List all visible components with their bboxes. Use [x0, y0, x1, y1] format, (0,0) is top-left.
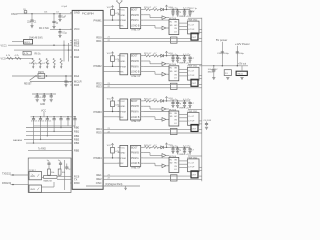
logic block U10 — [131, 8, 144, 29]
out4 pin numbers — [108, 174, 111, 179]
resistor bank RN1 a — [32, 58, 34, 65]
svg-text:POWER +12V: POWER +12V — [178, 154, 192, 156]
U1 left pin names — [74, 11, 82, 185]
svg-text:HO: HO — [174, 25, 177, 27]
wire TXD232 — [11, 174, 30, 175]
resistor R6 value — [35, 53, 42, 55]
U30 caption — [132, 120, 141, 123]
row2 rail caption — [178, 62, 192, 64]
optocoupler U3 — [29, 185, 42, 192]
ground caps 2 — [171, 60, 191, 62]
svg-text:PWM4: PWM4 — [94, 156, 103, 160]
row4 rail caption — [178, 154, 192, 156]
svg-text:VCC: VCC — [120, 56, 125, 58]
wire d3 vcc — [163, 100, 173, 101]
connector J4 servo header — [118, 145, 128, 166]
svg-text:VCC: VCC — [120, 147, 125, 149]
wire pwmB 3 — [143, 106, 162, 109]
wire out3 a — [103, 129, 191, 131]
capacitor C2 1u — [52, 14, 58, 26]
wire U11 Q1 a — [179, 22, 188, 24]
wire buf2a out — [166, 63, 169, 65]
half bridge Q2 — [188, 67, 200, 80]
svg-text:MCLR: MCLR — [74, 80, 82, 84]
svg-text:4.7: 4.7 — [191, 58, 194, 60]
svg-text:+5V out: +5V out — [238, 62, 246, 65]
buffer B1b — [162, 26, 166, 30]
wire caps feed 4 — [172, 147, 190, 148]
wire out4 a — [103, 175, 191, 177]
svg-text:100µ: 100µ — [239, 53, 245, 55]
svg-text:V+ 4.7: V+ 4.7 — [188, 25, 195, 27]
capacitor C35 1uF — [204, 120, 212, 129]
svg-text:VCC 1µ: VCC 1µ — [190, 8, 198, 10]
resistor R11 — [144, 7, 152, 11]
svg-text:0.1 0.1 0.1: 0.1 0.1 0.1 — [35, 97, 46, 99]
ground under C5 — [64, 85, 67, 87]
wire loadB 4 — [143, 163, 162, 166]
svg-text:LOAD B: LOAD B — [131, 162, 140, 165]
regulator U20 78L05 — [236, 66, 247, 76]
wire boot 2 — [143, 55, 144, 57]
diode D41 — [161, 146, 164, 149]
svg-text:GND: GND — [40, 104, 45, 106]
cap values b 3 — [179, 99, 194, 105]
wire vcc drop — [43, 112, 45, 117]
capacitor C14 — [188, 10, 191, 14]
wire RX3 net — [103, 116, 120, 118]
resistor bank RN1 e — [60, 58, 62, 65]
svg-text:RESET: RESET — [24, 83, 32, 85]
power flag VCC row 3 — [165, 97, 173, 101]
U1 right pin names — [94, 18, 103, 185]
sense resistor R4S — [171, 175, 178, 181]
resistor R11 — [58, 169, 66, 175]
wire serial rail — [64, 160, 66, 190]
node +12V power — [235, 42, 250, 46]
diode D20 label — [208, 71, 216, 73]
wire r21 r22 — [151, 55, 153, 57]
wire decoupling lower bus — [34, 125, 76, 127]
net label VCC1 — [1, 45, 8, 47]
serial enclosure — [28, 158, 71, 193]
svg-text:PWM: PWM — [120, 66, 126, 68]
wire Q1 rail a — [199, 29, 202, 31]
svg-text:LOAD B: LOAD B — [131, 71, 140, 74]
wire buf4a out — [166, 154, 169, 156]
svg-text:VCC1: VCC1 — [1, 45, 8, 47]
buffer B4a — [162, 154, 166, 158]
svg-text:RA5: RA5 — [74, 83, 80, 87]
capacitor C15 — [66, 117, 69, 126]
capacitor C14 — [59, 117, 62, 126]
wire caps feed 1 — [172, 9, 190, 10]
wire U41 Q4 c — [179, 167, 188, 169]
power flag VCC mid — [41, 109, 46, 112]
wire port drop 1 — [33, 126, 34, 144]
svg-text:HO: HO — [174, 116, 177, 118]
capacitor C11 — [39, 117, 42, 126]
level shifter U4 — [44, 176, 58, 179]
resistor R26 4.7k — [111, 56, 120, 62]
cap values a 2 — [171, 54, 179, 56]
wire RXD232 — [11, 184, 30, 185]
resistor R31 — [144, 98, 152, 102]
power flag VCC pullup 2 — [107, 52, 114, 56]
capacitor C20 — [217, 50, 230, 55]
wire pwmA 3 — [143, 111, 169, 113]
wire Q4 rail a — [199, 166, 202, 168]
diode D1 label — [29, 37, 43, 39]
wire pwmA 4 — [143, 157, 169, 159]
cap values a 4 — [171, 145, 179, 147]
svg-text:ETAL UP: ETAL UP — [132, 120, 141, 123]
resistor bank RN1 d — [53, 58, 55, 65]
U1 part number — [82, 12, 94, 16]
wire loadB 2 — [143, 72, 162, 75]
wire RX2 net — [103, 71, 120, 73]
svg-text:PWM A: PWM A — [131, 157, 139, 160]
ground under C22 — [212, 78, 215, 80]
wire out1 a — [103, 37, 191, 39]
svg-text:4.7 UF: 4.7 UF — [188, 29, 195, 31]
wire Q2 rail a — [199, 75, 202, 77]
microcontroller U1 PIC16F877 — [72, 10, 103, 189]
sense resistor R1S — [171, 37, 178, 43]
svg-text:R2 4.7kΩ: R2 4.7kΩ — [39, 28, 49, 30]
svg-text:0.1 4.7µ: 0.1 4.7µ — [183, 99, 191, 101]
svg-text:LO: LO — [174, 31, 177, 33]
capacitor C44 — [188, 147, 191, 151]
svg-text:VCC: VCC — [120, 10, 125, 12]
power flag VCC pullup 4 — [107, 143, 114, 147]
svg-text:R11 4.7: R11 4.7 — [144, 7, 152, 9]
wire pwmA 2 — [143, 65, 169, 67]
wire cap trio bus — [32, 93, 56, 94]
optocoupler U2 label — [29, 170, 36, 172]
wire PWM2 net — [103, 61, 120, 67]
svg-text:HO: HO — [174, 163, 177, 165]
svg-text:PWM: PWM — [120, 158, 126, 160]
wire out2 a — [103, 84, 191, 86]
svg-text:RB2: RB2 — [74, 134, 80, 138]
diode D11 — [161, 8, 164, 11]
resistor R12 — [153, 7, 159, 11]
rectifier BR1 — [224, 70, 231, 76]
connector J2 servo header — [118, 54, 128, 75]
antenna ANT1 — [116, 1, 122, 8]
wire r22 d2 — [159, 55, 161, 57]
wire U11 Q1 b — [179, 25, 188, 27]
wire caps feed 3 — [172, 100, 190, 101]
node +5V out — [238, 62, 246, 65]
gate driver U31 — [169, 111, 179, 126]
net label top-left — [11, 13, 18, 16]
svg-text:100µF 25V: 100µF 25V — [208, 69, 218, 71]
sense resistor R2S — [171, 83, 178, 89]
svg-text:VCC: VCC — [120, 101, 125, 103]
svg-text:RD1: RD1 — [96, 39, 102, 43]
svg-text:78L05: 78L05 — [237, 74, 244, 76]
wire Q3 rail a — [199, 120, 202, 122]
net label To RXD — [38, 148, 46, 150]
supervisor U6 — [12, 40, 33, 45]
wire r32 d3 — [159, 100, 161, 102]
capacitor C43 — [183, 147, 186, 151]
note copyright — [105, 183, 123, 186]
switch SW1 — [30, 76, 36, 80]
capacitor C33 — [183, 101, 186, 105]
svg-text:V+ 4.7: V+ 4.7 — [188, 162, 195, 164]
U20 caption — [132, 75, 141, 78]
svg-text:RA4: RA4 — [74, 74, 80, 78]
U10 caption — [132, 29, 141, 32]
wire opto out b — [42, 182, 55, 187]
svg-text:VCC: VCC — [1, 57, 6, 60]
wire U31 Q3 b — [179, 117, 188, 119]
half bridge Q1 — [188, 21, 200, 34]
wire Q3 rail b — [199, 123, 202, 125]
wire bottom gnd net — [86, 185, 140, 187]
wire vcc feed — [6, 57, 34, 59]
svg-text:VCC: VCC — [107, 53, 112, 55]
wire r41 r42 — [151, 146, 153, 148]
svg-text:PWM2: PWM2 — [94, 64, 103, 68]
svg-text:GND: GND — [120, 61, 125, 63]
ground under C1 — [30, 26, 33, 28]
gate driver U41 label — [169, 156, 177, 158]
diode D21 — [161, 54, 164, 57]
svg-text:GND: GND — [120, 153, 125, 155]
wire opto out a — [42, 176, 44, 178]
wire CN2 rail a — [198, 84, 202, 86]
wire U41 Q4 b — [179, 163, 188, 165]
ground under C4 — [58, 35, 61, 37]
resistor bank values — [29, 63, 50, 65]
connector J1 servo header — [118, 8, 128, 29]
wire U31 Q3 c — [179, 120, 188, 122]
svg-text:PWM A: PWM A — [131, 65, 139, 68]
logic block U40 — [131, 145, 144, 166]
logic block U20 — [131, 54, 144, 75]
svg-text:4.7 UF: 4.7 UF — [188, 167, 195, 169]
svg-text:PWM A: PWM A — [131, 111, 139, 114]
svg-text:RX: RX — [120, 72, 124, 74]
svg-text:RXD232: RXD232 — [2, 182, 12, 185]
optocoupler U2 — [29, 172, 42, 180]
buffer B2b — [162, 72, 166, 76]
wire pwmB 1 — [143, 15, 162, 18]
cap trio values — [35, 97, 46, 99]
connector CN3 — [191, 125, 198, 132]
node 5V power — [216, 38, 227, 42]
svg-text:PWM B: PWM B — [131, 15, 139, 17]
resistor R21 — [144, 53, 152, 57]
connector CN4 — [191, 171, 198, 178]
svg-text:(C)(Signal Part): (C)(Signal Part) — [105, 183, 123, 186]
wire boot 3 — [143, 100, 144, 102]
switch SW1 label — [24, 83, 32, 85]
U1 left pin stubs — [70, 13, 72, 183]
svg-text:ETAL UP: ETAL UP — [132, 75, 141, 78]
wire CN3 rail a — [198, 129, 202, 131]
wire CN4 rail a — [198, 175, 202, 177]
gate driver U31 label — [169, 109, 177, 111]
buffer B2a — [162, 62, 166, 66]
svg-text:LOAD B: LOAD B — [131, 24, 140, 27]
capacitor C12 — [46, 117, 49, 126]
svg-text:MCP1: MCP1 — [24, 42, 31, 44]
wire loadB 3 — [143, 117, 162, 120]
svg-text:R21 4.7: R21 4.7 — [144, 53, 152, 55]
resistor R2 value — [39, 28, 49, 30]
wire power bus — [199, 65, 248, 66]
svg-text:C6 1UF: C6 1UF — [204, 120, 212, 122]
svg-text:R41 4.7: R41 4.7 — [144, 145, 152, 147]
half bridge Q4 label — [188, 157, 198, 159]
connector J3 servo header — [118, 99, 128, 120]
capacitor C1 22p — [27, 14, 37, 26]
svg-text:0.1µ 1µ: 0.1µ 1µ — [171, 145, 179, 147]
connector CN2 — [191, 79, 198, 86]
net label RXD232 — [2, 182, 12, 185]
power rail +12V — [201, 18, 203, 181]
svg-text:VCC: VCC — [74, 27, 80, 31]
half bridge Q2 label — [188, 66, 198, 68]
wire port RB4 — [26, 142, 72, 144]
crystal X1 value — [38, 72, 45, 74]
wire out2 b — [103, 87, 202, 89]
gate driver U21 label — [169, 64, 177, 66]
resistor R32 — [153, 98, 159, 102]
svg-text:0.1 0.1 0.1 0.1 0.1 0.1: 0.1 0.1 0.1 0.1 0.1 0.1 — [31, 121, 52, 123]
row3 rail caption — [178, 108, 192, 110]
wire RC3 net — [8, 45, 72, 46]
svg-text:RB5: RB5 — [74, 148, 80, 152]
power flag VCC pullup 1 — [107, 6, 114, 10]
wire d2 vcc — [163, 55, 173, 56]
svg-text:GND: GND — [120, 15, 125, 17]
svg-text:LOAD B: LOAD B — [131, 116, 140, 119]
sense resistor R3S — [171, 128, 178, 134]
wire riser b — [68, 43, 70, 62]
cap values b 4 — [179, 145, 194, 151]
cap values b 1 — [179, 8, 194, 14]
ground under U20 — [240, 78, 243, 80]
capacitor C15 — [47, 160, 51, 169]
svg-text:PWM3: PWM3 — [94, 110, 103, 114]
wire port drop 2 — [40, 126, 41, 140]
svg-text:POWER +12V: POWER +12V — [178, 16, 192, 18]
wire port RB1 — [26, 130, 72, 132]
net label TXD232 — [2, 172, 11, 175]
svg-text:RA0: RA0 — [74, 55, 80, 59]
svg-text:0.1µF: 0.1µF — [62, 6, 68, 8]
half bridge Q3 label — [188, 111, 198, 113]
svg-text:0.1µ 1µ: 0.1µ 1µ — [171, 8, 179, 10]
capacitor C16 — [58, 160, 62, 169]
svg-text:BOOT: BOOT — [131, 10, 138, 12]
buffer B3a — [162, 107, 166, 111]
svg-text:RC3: RC3 — [74, 43, 80, 47]
wire RX1 net — [103, 24, 120, 26]
ground caps 1 — [171, 14, 191, 16]
svg-text:RX: RX — [120, 163, 124, 165]
svg-text:RX: RX — [120, 25, 124, 27]
ground under C7 — [36, 100, 39, 102]
svg-text:To RXD: To RXD — [38, 148, 46, 150]
svg-text:GND: GND — [74, 11, 80, 15]
wire pwmB 4 — [143, 153, 162, 156]
resistor R22 — [153, 53, 159, 57]
svg-text:POWER +12V: POWER +12V — [178, 108, 192, 110]
wire U41 Q4 a — [179, 160, 188, 162]
svg-text:RD3: RD3 — [96, 85, 102, 89]
wire RX4 net — [103, 162, 120, 164]
wire osc bus — [17, 12, 72, 15]
resistor R41 — [144, 145, 152, 149]
wire caps feed 2 — [172, 55, 190, 56]
svg-text:0.1 4.7µ: 0.1 4.7µ — [183, 145, 191, 147]
capacitor C41 — [171, 147, 174, 151]
wire out3 b — [103, 132, 202, 134]
resistor bank RN1 c — [46, 58, 48, 65]
svg-text:4.7: 4.7 — [191, 149, 194, 151]
svg-text:BOOT: BOOT — [131, 56, 138, 58]
svg-text:4N25: 4N25 — [30, 176, 36, 178]
ground under BR1 — [226, 77, 229, 79]
wire r42 d4 — [159, 146, 161, 148]
wire port RB2 — [26, 135, 72, 137]
ground under C9 — [50, 100, 53, 102]
ground under C2 — [52, 26, 55, 28]
svg-text:1N4007: 1N4007 — [208, 71, 216, 73]
C4 value above U1 — [62, 6, 68, 8]
svg-text:BOOT: BOOT — [131, 147, 138, 149]
power flag VCC pullup 3 — [107, 97, 114, 101]
capacitor C5 — [64, 75, 71, 84]
resistor R10 — [48, 169, 56, 175]
wire port drop 4 — [53, 126, 54, 132]
svg-text:RC4: RC4 — [74, 48, 80, 52]
resistor bank terminations — [32, 65, 62, 68]
svg-text:100µ: 100µ — [224, 53, 230, 55]
svg-text:PWM1: PWM1 — [94, 18, 103, 22]
power flag VCC row 4 — [165, 143, 173, 147]
wire pwmB 2 — [143, 61, 162, 64]
svg-text:PWM: PWM — [120, 20, 126, 22]
wire PWM3 net — [103, 107, 120, 113]
diode D31 — [161, 100, 164, 103]
capacitor C21 — [236, 50, 245, 55]
wire r11 r12 — [151, 9, 153, 11]
svg-text:OSC1: OSC1 — [11, 13, 18, 16]
capacitor C9 — [50, 94, 53, 98]
capacitor C11 — [171, 10, 174, 14]
svg-text:PWM B: PWM B — [131, 153, 139, 155]
svg-text:RD5: RD5 — [96, 130, 102, 134]
resistor R7 — [6, 55, 13, 59]
wire pwmA 1 — [143, 19, 169, 21]
svg-text:PWM B: PWM B — [131, 61, 139, 63]
wire decoupling bus — [31, 116, 76, 117]
wire Q2 rail b — [199, 78, 202, 80]
svg-text:RX: RX — [120, 117, 124, 119]
resistor bank RN1 b — [39, 58, 41, 65]
half bridge Q3 — [188, 113, 200, 126]
svg-text:0.1 4.7µ: 0.1 4.7µ — [183, 54, 191, 56]
svg-text:+12V Power: +12V Power — [235, 42, 250, 46]
